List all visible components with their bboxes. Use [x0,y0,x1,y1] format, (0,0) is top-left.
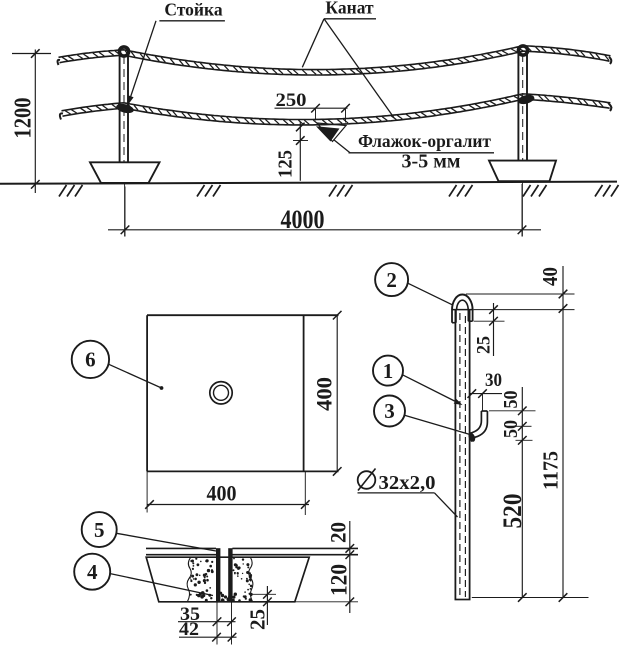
left post [119,49,121,163]
svg-text:400: 400 [207,481,237,506]
leader diameter [435,493,458,517]
leader 2 [408,283,453,305]
extension line y309.5 [474,309,575,311]
svg-text:4000: 4000 [281,205,325,234]
tube bottom cap [455,599,471,601]
svg-text:125: 125 [275,150,297,178]
dim 400 right (vertical) [336,315,338,471]
dim 25 (section) [266,586,268,625]
dim 30 [470,393,502,395]
weld blob [467,432,476,443]
extension dash y440 [516,439,533,441]
flag (orgalit) outline [317,123,346,142]
dim 20 / 120 line [349,521,351,613]
svg-text:400: 400 [312,377,337,411]
flag leader arrow [316,126,340,141]
tube wall extension lines [216,602,218,645]
dim 400 bottom [147,504,309,506]
foundation trapezoid [146,557,309,602]
hook poz 2 (top arc) [452,294,473,310]
dim 4000 [108,229,541,231]
top rope right end curl [609,57,611,64]
extension dash y426 [516,425,532,427]
svg-text:120: 120 [327,564,352,596]
extension line hook top (y410.8) [489,410,536,412]
svg-text:3-5 мм: 3-5 мм [402,151,461,173]
svg-text:520: 520 [498,494,527,529]
callout 4 [74,554,110,590]
svg-text:40: 40 [538,267,562,286]
dim 1200 [34,50,36,194]
leader 3 [405,415,471,434]
lower rope [62,94,611,120]
dim 50/50/520 line [521,387,523,598]
top rope [59,46,611,70]
left post base [90,162,160,183]
svg-text:1200: 1200 [10,98,37,139]
svg-text:25: 25 [474,336,495,354]
rope knot top of left post [119,47,128,56]
ground hatching [59,185,619,197]
concrete boundary squiggles [187,558,191,602]
diameter label [358,471,376,489]
right post [517,47,519,161]
dim 25 (detail) [493,303,495,356]
right post centerline [521,161,523,237]
hook poz 3 (middle) [470,411,481,433]
section plate bottom [146,554,216,556]
svg-text:4: 4 [87,560,98,584]
dim 250 [275,107,348,109]
callout 6 [72,341,109,378]
svg-text:25: 25 [246,609,270,630]
svg-text:32х2,0: 32х2,0 [379,472,436,494]
ground line [0,182,617,184]
svg-text:Канат: Канат [325,0,374,18]
callout 3 [374,396,405,427]
leader 5 [117,533,217,551]
svg-text:6: 6 [85,348,96,372]
rope knot lower left post [115,102,134,115]
svg-text:2: 2 [386,268,397,292]
svg-text:42: 42 [179,619,199,640]
svg-text:50: 50 [500,420,522,438]
hook poz 2 left leg [451,310,453,323]
bottom extension line [472,597,589,599]
callout 1 [373,356,403,386]
dim 125 [299,122,301,181]
svg-text:Флажок-оргалит: Флажок-оргалит [358,131,491,151]
leader 6 [109,364,162,388]
svg-text:1: 1 [383,359,394,383]
plate square [147,314,339,316]
callout 5 [82,512,117,547]
svg-text:1175: 1175 [539,451,563,490]
plate hole [210,382,232,404]
section plate top [146,547,216,549]
leader 1 [403,375,460,404]
hook foot flare [471,433,475,442]
svg-text:30: 30 [485,370,502,391]
leader Kanat to lower rope [324,19,394,118]
extension line top (y294) [466,293,575,295]
extension line y321 [474,320,505,322]
lower rope right end curl [609,104,611,111]
svg-text:20: 20 [326,522,351,543]
right post base [489,161,556,182]
lower rope left end curl [60,113,63,119]
post tube detail [454,310,456,600]
hook poz 2 right leg [467,310,469,321]
rope knot top of right post [518,46,527,55]
dim 35 [178,621,236,623]
dim 42 [179,636,237,638]
left post centerline [124,163,126,237]
svg-text:250: 250 [276,91,307,111]
svg-text:50: 50 [500,391,522,409]
svg-text:5: 5 [94,518,105,542]
svg-text:Стойка: Стойка [164,0,222,19]
rope knot lower right post [517,93,536,105]
concrete speckles [189,558,252,603]
tube top cap [452,309,474,311]
svg-text:3: 3 [384,399,395,423]
dim 40/1175 line [562,266,564,598]
callout 2 [375,263,408,296]
leader Stoika [129,21,157,103]
leader Kanat to top rope [302,19,324,68]
tube section walls [216,548,220,602]
leader 4 [110,574,213,596]
top rope left end curl [58,60,60,65]
